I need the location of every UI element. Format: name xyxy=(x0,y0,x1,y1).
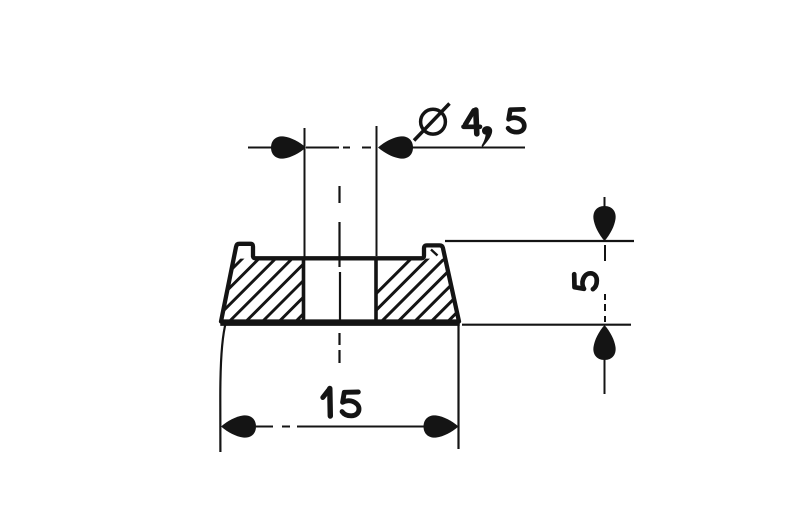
dimension line Ø4,5 xyxy=(248,147,525,149)
hatch left region xyxy=(166,235,399,335)
label digit 5 (of 4,5) xyxy=(508,109,524,132)
extension line left (width 15) xyxy=(220,322,226,452)
diameter symbol Ø xyxy=(414,104,450,141)
extension line top (height 5) xyxy=(445,240,634,242)
dimension line 5 (vertical) xyxy=(604,197,607,394)
label comma xyxy=(482,126,493,146)
arrow 15 right (points right) xyxy=(424,415,459,437)
label 5 (rotated, height dimension) xyxy=(574,273,597,289)
hole right edge xyxy=(374,258,378,323)
part bottom edge (thick) xyxy=(220,320,459,326)
arrow 5 top (points down) xyxy=(593,206,615,241)
arrow 5 bottom (points up) xyxy=(593,325,615,360)
hole left edge xyxy=(302,258,306,322)
arrow Ø4,5 left (points right) xyxy=(271,136,306,158)
dimension line 15 xyxy=(256,426,424,428)
vertical centerline (dash-dot) xyxy=(338,186,341,363)
label digit 1 (of 15) xyxy=(323,389,331,417)
label digit 4 xyxy=(464,110,481,134)
label digit 5 (of 15) xyxy=(342,392,359,416)
extension line left (hole Ø4,5) xyxy=(304,128,306,257)
extension line bottom (height 5) xyxy=(462,324,631,326)
hatch tick in right ear xyxy=(431,250,438,256)
arrow 15 left (points left) xyxy=(221,415,256,437)
extension line right (width 15) xyxy=(457,320,459,449)
part outline (grommet cross-section) xyxy=(221,244,459,322)
extension line right (hole Ø4,5) xyxy=(376,126,378,256)
hatch right region xyxy=(335,235,551,335)
arrow Ø4,5 right (points left) xyxy=(378,136,413,158)
